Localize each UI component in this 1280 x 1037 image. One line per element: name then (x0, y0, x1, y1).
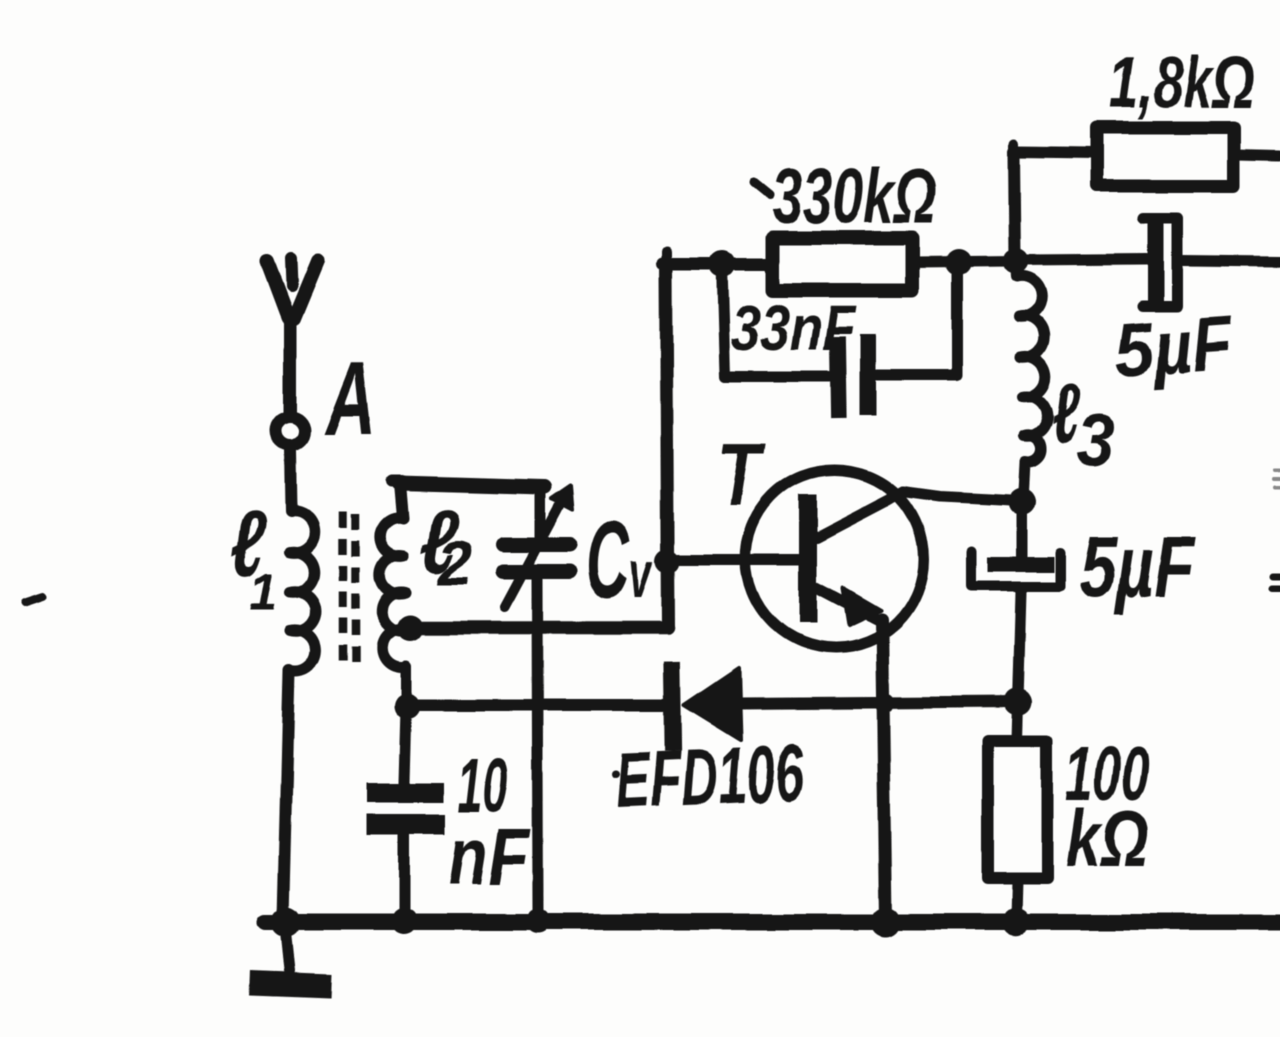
wire (emitter down) (882, 620, 886, 920)
tick mark (754, 182, 770, 195)
svg-text:nF: nF (448, 811, 531, 902)
resistor 330k (772, 238, 913, 290)
node (ground, 10nF bottom) (391, 908, 417, 934)
wire (L2 top to Cv) (399, 483, 544, 487)
node A (antenna terminal) (276, 417, 305, 446)
coil L2 (380, 483, 408, 705)
svg-text:5µF: 5µF (1079, 519, 1196, 616)
svg-text:1: 1 (249, 562, 278, 622)
coil L1 (289, 512, 316, 671)
wire (L2 tap to riser) (410, 621, 668, 635)
wire (diode right to node) (737, 702, 1018, 704)
wire (1.8k right) (1235, 155, 1280, 156)
label 100k (1065, 732, 1149, 884)
capacitor 10nF (367, 707, 445, 918)
transformer core (L1/L2) (343, 512, 356, 672)
wire (5uF top right) (1181, 261, 1280, 262)
node L2 tap (397, 615, 423, 641)
edge mark right top (1274, 470, 1280, 488)
node (L2 bottom) (394, 693, 420, 719)
node base tee (655, 549, 679, 573)
node collector (1008, 488, 1036, 516)
svg-text:330kΩ: 330kΩ (772, 153, 936, 240)
edge mark right bottom (1272, 576, 1280, 588)
svg-text:5µF: 5µF (1112, 301, 1237, 394)
wire (to 5uF top) (1016, 259, 1147, 260)
wire (Cv bottom down to ground) (537, 580, 538, 918)
wire (L1 to ground) (283, 670, 289, 918)
label 10nF (448, 744, 531, 901)
svg-text:v: v (629, 538, 653, 612)
svg-text:EFD106: EFD106 (614, 728, 806, 825)
label Cv (586, 499, 653, 622)
label 1.8k (1109, 41, 1254, 124)
label A (323, 341, 376, 456)
wire tick (L2 loop corner) (392, 475, 402, 487)
svg-text:kΩ: kΩ (1066, 795, 1149, 884)
svg-text:1,8kΩ: 1,8kΩ (1109, 41, 1254, 124)
svg-text:3: 3 (1076, 400, 1114, 482)
node (330k right / 33nF top-right) (945, 249, 971, 275)
node (ground, emitter) (871, 907, 901, 937)
value label L1 (231, 491, 278, 623)
edge mark left (25, 597, 43, 603)
diode EFD106 (672, 668, 741, 742)
wire tick (riser corner) (661, 252, 671, 265)
node (ground, 100k bottom) (1002, 908, 1030, 936)
svg-text:2: 2 (437, 529, 472, 598)
wire (top left of 330k) (662, 258, 772, 270)
label 5uF top (1112, 301, 1237, 394)
wire (ground bus) (265, 914, 1280, 930)
node (ground, Cv bottom) (526, 909, 550, 933)
wire tick (1.8k corner) (1009, 144, 1019, 154)
capacitor 5uF mid (972, 502, 1060, 702)
capacitor 5uF top (1143, 218, 1177, 306)
resistor 100k (988, 702, 1047, 919)
node (diode out / 100k top) (1004, 688, 1032, 716)
label EFD106 (614, 728, 806, 825)
value label L2 (420, 491, 472, 598)
capacitor 33nF loop (722, 263, 957, 411)
antenna A1 (267, 257, 318, 412)
coil L3 (1016, 261, 1048, 502)
node (supply rail / L3 top) (1003, 248, 1029, 274)
svg-text:T: T (717, 426, 767, 525)
svg-text:33nF: 33nF (731, 291, 857, 364)
wire (330k right) (913, 261, 1016, 262)
label 5uF mid (1079, 519, 1196, 616)
wire riser to 1.8k (1014, 152, 1095, 261)
ground (250, 922, 332, 986)
capacitor Cv (503, 486, 572, 607)
svg-text:A: A (323, 341, 376, 456)
transistor T (746, 470, 924, 648)
label T (717, 426, 767, 525)
wire (node A to L1) (290, 450, 291, 512)
label 33nF (731, 291, 857, 364)
wire (collector to node) (903, 492, 1022, 501)
wire (base) (667, 554, 799, 565)
svg-text:C: C (586, 499, 631, 622)
dot mark (612, 770, 620, 778)
node (emitter cross) (875, 693, 895, 713)
value label L3 (1052, 366, 1114, 481)
wire (diode line left) (408, 699, 664, 711)
wire riser (666, 264, 668, 628)
node (330k left / 33nF top-left) (709, 251, 735, 277)
label 330k (772, 153, 936, 240)
resistor 1.8k (1096, 128, 1234, 186)
node (ground, L1 bottom) (271, 907, 301, 937)
